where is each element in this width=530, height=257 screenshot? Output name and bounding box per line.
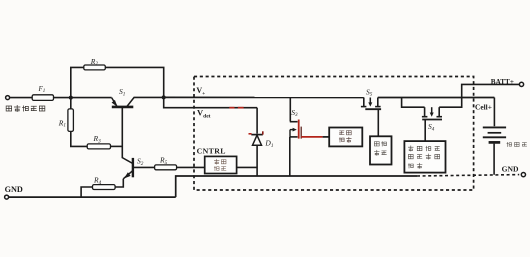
junction node A	[69, 96, 73, 100]
wire ground rail	[9, 196, 176, 198]
resistor R3	[87, 144, 110, 149]
svg-text:GND: GND	[5, 185, 23, 194]
label 充电器输入	[6, 105, 45, 111]
block: charge control box	[205, 156, 237, 173]
wire bottom rail (solid part)	[176, 176, 417, 197]
svg-text:Cell+: Cell+	[475, 102, 492, 111]
wire S3 gate to safety shunt box (red)	[301, 136, 322, 138]
terminal: GND right	[521, 173, 525, 177]
transistor S4 (MOSFET protection switch)	[422, 107, 442, 119]
wire battery bottom	[493, 144, 495, 175]
resistor R4	[93, 185, 116, 190]
svg-text:CNTRL: CNTRL	[197, 146, 226, 155]
wire R2 to node B	[105, 67, 163, 97]
terminal: charger input	[6, 96, 10, 100]
block: phone low-voltage and short-circuit protection box	[404, 141, 445, 173]
wire node A up to R2	[71, 67, 84, 97]
zener diode D1	[249, 131, 263, 145]
battery cell plates	[483, 127, 506, 142]
wire R1 to R3	[71, 131, 87, 146]
wire S4 drain to right riser	[439, 98, 462, 108]
wire riser to BATT+	[462, 84, 520, 97]
transistor S1 (PNP pass transistor)	[112, 97, 164, 107]
wire D1 anode down to bottom rail	[256, 146, 258, 176]
wire S2 emitter down to R4	[115, 179, 123, 187]
wire CNTRL box to D1 anode line	[237, 166, 258, 168]
wire S4 branch left riser	[402, 98, 425, 108]
red marks on Vdet line	[229, 107, 243, 109]
wire node A down to R1	[70, 98, 72, 109]
transistor S3 (MOSFET, safety shunt)	[290, 98, 301, 139]
terminal: GND left	[5, 195, 9, 199]
wire R3 to S1 base line	[111, 145, 123, 147]
wire bottom rail (dashed part to GND right)	[417, 175, 519, 176]
wire S3 source down to bottom rail	[289, 137, 291, 176]
wire Vdet line down to D1	[256, 108, 258, 134]
wire node B down to Vdet line	[164, 97, 257, 107]
label 安全分流	[339, 131, 351, 143]
wire S2 base to R5	[133, 166, 154, 168]
wire input to fuse	[10, 97, 33, 99]
wire S1 base down	[121, 107, 123, 158]
label 手机低电压及短路保护	[408, 146, 439, 169]
transistor S5 (MOSFET in V+ rail)	[361, 98, 381, 110]
fuse F1	[32, 95, 53, 101]
wire R5 to CNTRL box	[177, 166, 205, 168]
label 充电控制	[214, 159, 226, 171]
wire S3 gate black tail	[323, 136, 330, 138]
wire S5 gate down to current sense box	[377, 109, 379, 136]
block: current sense box	[370, 136, 392, 164]
label 锂电池	[507, 142, 527, 146]
transistor S2 (NPN)	[122, 158, 133, 179]
wire battery top	[493, 98, 495, 127]
block: safety shunt box	[329, 128, 362, 147]
junction node B	[162, 95, 166, 99]
wire R4 to ground rail	[81, 187, 92, 197]
wire fuse to node A and on to S1 emitter	[54, 97, 112, 99]
wire V+ rail after S5 to battery drop	[378, 97, 495, 99]
wire S4 gate down to protection box	[424, 120, 426, 142]
svg-text:BATT+: BATT+	[491, 78, 514, 86]
resistor R2	[84, 65, 106, 70]
resistor R1	[68, 109, 74, 131]
dashed controller IC boundary box	[194, 77, 474, 191]
terminal: BATT+	[519, 82, 523, 86]
wire V+ rail node B to S5	[164, 96, 364, 98]
label 电流检测	[374, 141, 386, 155]
resistor R5	[155, 165, 177, 170]
svg-text:GND: GND	[502, 164, 519, 173]
